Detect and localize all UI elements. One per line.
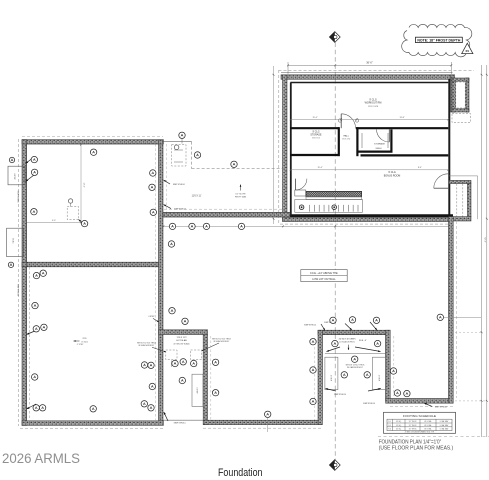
dashed footing line above upper block [279, 70, 475, 72]
callout circles game room east wall [390, 368, 396, 374]
door arc: storage [377, 129, 390, 142]
interior dimension line bonus rm [291, 169, 449, 171]
callout circles patio corner [179, 132, 185, 138]
courtyard dimension line below wall [163, 225, 451, 227]
callout circles wing east wall lower [168, 241, 174, 247]
svg-text:15'-4": 15'-4" [317, 167, 322, 169]
callout circles garage east wall [150, 170, 156, 176]
svg-text:13'-8": 13'-8" [399, 117, 404, 119]
svg-text:4 STEP: 4 STEP [330, 375, 332, 382]
svg-text:6'0 SQ.: 6'0 SQ. [396, 429, 402, 431]
interior wall D (hall east) [356, 127, 358, 156]
outer wall: left wing top [22, 140, 163, 144]
svg-text:NOTE: 18" FROST DEPTH: NOTE: 18" FROST DEPTH [417, 38, 461, 42]
inner thin faces game room [322, 334, 385, 336]
leader arrows mid-left wall [27, 331, 37, 335]
patio dashed outline horizontal [192, 168, 283, 170]
svg-text:SIMP STHD14: SIMP STHD14 [363, 403, 375, 405]
svg-text:SIMP STHD14: SIMP STHD14 [334, 394, 346, 396]
callout circles left wall interior [31, 156, 37, 162]
exterior stair box right side [449, 180, 471, 183]
leader arrows top-left wall [26, 157, 35, 164]
outer wall: left wing east (shared wall) [159, 140, 163, 425]
game room step box west [325, 357, 338, 389]
small circle tag patio post [174, 145, 179, 150]
inner face: upper block left [290, 83, 292, 216]
svg-text:4'4"X4'4" (6" DEEP): 4'4"X4'4" (6" DEEP) [339, 338, 356, 340]
stair treads [309, 205, 311, 212]
svg-text:4" MIN. ON UNDISTURBED SOIL TY: 4" MIN. ON UNDISTURBED SOIL TYP. [405, 432, 435, 434]
patio dashed outline vertical [191, 142, 193, 169]
svg-text:3'6 X 17'0: 3'6 X 17'0 [342, 139, 350, 141]
small circle tag garage pad [68, 199, 72, 203]
svg-text:9'-0": 9'-0" [52, 220, 56, 222]
dashed footing line below south wall [20, 428, 164, 430]
frost depth note box [416, 37, 463, 42]
post pad column 1 [299, 205, 304, 210]
svg-text:LOW LOT OUTFALL: LOW LOT OUTFALL [312, 277, 336, 281]
interior wall A (workout rm south wall, west segment) [290, 127, 339, 129]
outer wall: game room south band [386, 399, 454, 404]
FFE note box [301, 270, 347, 282]
outer wall: alcove east wall [203, 334, 207, 424]
revision triangle R1 [462, 43, 473, 53]
svg-text:W/ 4 ANCHOR BOLT: W/ 4 ANCHOR BOLT [139, 344, 155, 347]
alcove step box [192, 374, 203, 406]
exterior stair treads dashed [456, 184, 458, 217]
dashed footing line below upper block south wall [280, 223, 453, 225]
game room down arrow [348, 345, 350, 350]
right vertical dimension line outer [486, 65, 488, 437]
svg-text:F-3: F-3 [389, 429, 392, 431]
svg-text:WORKOUT RM: WORKOUT RM [365, 102, 382, 105]
svg-text:36'-0": 36'-0" [366, 61, 373, 65]
garage interior dim line horizontal [27, 221, 81, 223]
callout circles courtyard dimension row [169, 223, 175, 229]
exterior elec panel box lower [7, 228, 24, 256]
inner face lines left wing [26, 144, 28, 421]
outer wall: alcove north band [159, 330, 208, 335]
svg-text:Foundation: Foundation [218, 467, 263, 479]
svg-text:BONUS ROOM: BONUS ROOM [384, 174, 401, 177]
stair enclosure outline [295, 200, 363, 213]
game room interior line [325, 353, 386, 355]
door jamb circles [338, 119, 341, 122]
callout circles alcove [172, 360, 178, 366]
outer wall: upper block top [281, 75, 453, 80]
alcove inner thin faces [163, 333, 203, 335]
revision cloud [402, 24, 472, 57]
hot slab post pad west [166, 350, 177, 360]
svg-text:5'8 X 5'2: 5'8 X 5'2 [312, 137, 321, 139]
interior wall B2 (bonus room north wall) [361, 154, 449, 156]
right vertical dimension line inner [481, 65, 483, 437]
storage interior shelf lines [361, 133, 363, 148]
hot slab post pad east [191, 350, 202, 360]
interior wall C (hall west) [338, 127, 340, 156]
interior dimension line workout rm [291, 118, 449, 120]
svg-text:4 STEP: 4 STEP [148, 316, 155, 318]
callout circles left wall exterior [9, 157, 14, 162]
dashed footing lines around east wing [455, 221, 457, 398]
footing schedule table [384, 412, 456, 433]
outer wall: right wall band upper portion [451, 75, 455, 112]
centerline (vertical dashed) [334, 43, 336, 462]
callout circle patio line [231, 161, 237, 167]
svg-text:4 STEP: 4 STEP [13, 173, 15, 180]
svg-text:8'-4": 8'-4" [418, 167, 422, 169]
svg-text:SIMP STHD14: SIMP STHD14 [304, 325, 316, 327]
svg-text:4'0 SQ.: 4'0 SQ. [396, 421, 402, 423]
svg-text:5'0 SQ.: 5'0 SQ. [396, 425, 402, 427]
leader arrows game room corners [327, 347, 341, 352]
svg-text:11'8 X 11'2: 11'8 X 11'2 [177, 337, 188, 339]
svg-text:11'6 X 11': 11'6 X 11' [192, 195, 202, 197]
svg-text:SIMP STHD14: SIMP STHD14 [435, 407, 447, 409]
dashed footing line left of upper block [278, 70, 280, 224]
svg-text:F.F.E. -4": F.F.E. -4" [359, 340, 367, 342]
outer wall: game room east wall [386, 330, 391, 401]
courtyard wall (breezeway south) [163, 212, 290, 217]
svg-text:4 STEP: 4 STEP [196, 387, 198, 394]
svg-text:(6" BELOW SLAB): (6" BELOW SLAB) [174, 342, 190, 345]
window well box top right [452, 78, 455, 112]
alcove interior leader lines [171, 361, 173, 367]
callout circles wing east wall at alcove [141, 362, 147, 368]
svg-text:9' CLG: 9' CLG [312, 131, 319, 133]
outer wall: upper block right (thick stem line) [448, 79, 450, 218]
outer wall: upper block left [283, 75, 288, 221]
svg-text:2026 ARMLS: 2026 ARMLS [2, 451, 80, 466]
svg-text:F-2: F-2 [389, 425, 392, 427]
outer wall: game room north band [318, 330, 390, 334]
dimension line 36ft (top of upper block) [288, 64, 451, 66]
dashed footing below center south band [203, 427, 322, 429]
svg-text:15'-4": 15'-4" [312, 117, 317, 119]
right band extension under stair box [453, 217, 471, 221]
game room step box east [373, 357, 386, 389]
garage interior dim line vertical [80, 145, 82, 223]
callout circle south band center [265, 411, 271, 417]
svg-text:SIMP STHD14: SIMP STHD14 [17, 191, 19, 203]
outer wall: game room west wall [318, 330, 322, 424]
svg-text:R1: R1 [466, 49, 470, 53]
svg-text:1'0" THICK: 1'0" THICK [409, 429, 418, 431]
svg-text:WASH: WASH [376, 147, 382, 150]
post pad column 2 [332, 205, 337, 210]
inner face: upper block top [290, 82, 448, 84]
callout circle lower room south wall [90, 406, 96, 412]
svg-text:19'8 X 34'8: 19'8 X 34'8 [368, 106, 379, 108]
svg-text:F.F.E. +14" ABOVE THE: F.F.E. +14" ABOVE THE [310, 271, 338, 275]
callout circle right dim [437, 314, 443, 320]
outer wall: south band of upper block (thick + hatch) [283, 214, 454, 217]
storage room box walls [390, 129, 392, 151]
svg-text:SIMP STHD14: SIMP STHD14 [174, 422, 186, 424]
section diamond marker bottom [329, 460, 340, 471]
callout circle top wall garage [90, 149, 96, 155]
svg-text:(USE FLOOR PLAN FOR MEAS.): (USE FLOOR PLAN FOR MEAS.) [379, 446, 454, 452]
svg-text:4 STEP: 4 STEP [378, 375, 380, 382]
exterior stoop box upper (4 step) [8, 166, 25, 185]
window well inner dashed [456, 82, 465, 108]
svg-text:FOOTING SCHEDULE: FOOTING SCHEDULE [403, 414, 436, 418]
alcove open south edge thin line [163, 419, 203, 421]
outer wall: main east wall (lower) [449, 217, 454, 404]
svg-text:13'-0": 13'-0" [83, 182, 85, 187]
inner dashed line left wing east wall [154, 144, 156, 420]
dashed line above foundation plan title [378, 436, 489, 438]
svg-text:4" STEP: 4" STEP [77, 344, 84, 346]
slope note with arrow [240, 185, 242, 191]
stair retaining wall (crosshatched) [306, 191, 362, 196]
dimension line left of upper block [273, 66, 275, 224]
patio post dashed box [172, 145, 186, 166]
svg-text:SIMP STHD14: SIMP STHD14 [174, 209, 186, 211]
right dim extension dashes [455, 331, 482, 333]
svg-text:SIMP STHD14: SIMP STHD14 [17, 284, 19, 296]
svg-text:STORAGE: STORAGE [374, 142, 385, 145]
interior wall A (east segment) [356, 127, 449, 129]
inner edge thin lines of block walls [281, 72, 453, 74]
garage post pad dashed [67, 207, 78, 220]
door arc: hall to workout room [340, 114, 342, 128]
svg-text:1/2 SLAB (W FELT): 1/2 SLAB (W FELT) [339, 341, 355, 344]
patio edge line from wing corner [163, 141, 191, 143]
svg-text:STORAGE: STORAGE [310, 133, 322, 136]
svg-text:HOT SLAB: HOT SLAB [176, 339, 187, 342]
outer wall: left wing south [22, 421, 163, 426]
svg-text:W/ 4 ANCHOR BOLT: W/ 4 ANCHOR BOLT [214, 340, 230, 343]
callout circles game room top row [330, 317, 336, 323]
dashed footing above courtyard wall [164, 208, 282, 210]
stair landing box [295, 190, 306, 196]
dashed footing line east of shared wall [165, 144, 167, 212]
svg-text:ELEC: ELEC [12, 239, 14, 245]
svg-text:PER FT MAX: PER FT MAX [235, 195, 247, 198]
interior wall B (storage south wall) [290, 154, 338, 156]
svg-text:HALL: HALL [343, 135, 349, 138]
callout circle patio mid [194, 152, 200, 158]
svg-text:W/ 4 ANCHOR BOLT: W/ 4 ANCHOR BOLT [347, 366, 363, 369]
outer wall: left wing west [22, 140, 27, 426]
dashed box below window well [452, 114, 471, 123]
svg-text:FOUNDATION PLAN 1/4"=1'0": FOUNDATION PLAN 1/4"=1'0" [379, 439, 442, 445]
svg-text:1'0" THICK: 1'0" THICK [409, 421, 418, 423]
dashed footing line west of left wing [18, 139, 20, 426]
svg-text:SIMP STHD14: SIMP STHD14 [173, 184, 185, 186]
svg-text:1/2" SLOPE: 1/2" SLOPE [235, 194, 246, 196]
inner dashed line left wing west wall [29, 267, 31, 420]
north/section diamond marker top [329, 32, 340, 43]
svg-text:F-1: F-1 [389, 421, 392, 423]
svg-text:52'-8": 52'-8" [483, 237, 485, 242]
door arc: bonus room west door [295, 179, 297, 190]
outer wall: left wing middle (garage/room divider) [22, 262, 161, 267]
exterior stair thin outline [449, 175, 478, 177]
garage post pad leader [79, 220, 84, 224]
stair lower strip [306, 197, 362, 200]
callout circles game room interior [332, 340, 338, 346]
callout circles game room west wall [310, 339, 316, 345]
svg-text:1'0" THICK: 1'0" THICK [409, 425, 418, 427]
dashed footing line above left wing top [22, 135, 163, 137]
outer wall: south band center (alcove to game room) [203, 420, 322, 424]
callout circle garage pad [81, 220, 87, 226]
door arc: bonus room east door [434, 187, 448, 189]
